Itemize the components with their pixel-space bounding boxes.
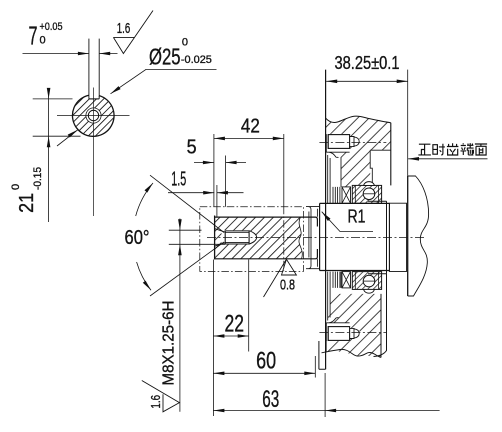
- lower bearing race shoulder: [364, 289, 375, 293]
- arrow dia25 leader: [111, 86, 121, 94]
- shaft face extension lower: [212, 260, 214, 417]
- dim 1.5 extension: [216, 185, 218, 217]
- lower housing right edge: [380, 294, 382, 358]
- M8 thread extension lines: [169, 229, 202, 231]
- arrow 60deg arc bottom: [143, 281, 151, 291]
- upper bolt shank tip: [350, 137, 360, 147]
- 60 deg lower leg / M8 leader: [150, 242, 224, 296]
- journal right flange: [368, 201, 389, 274]
- tapped hole thread circle: [86, 108, 101, 123]
- lower bolt shank tip: [350, 328, 360, 338]
- svg-text:42: 42: [241, 116, 260, 138]
- timing gear hub: [389, 203, 406, 271]
- hatch: upper crankcase housing: [326, 116, 391, 187]
- crankcase cover wall upper: [328, 155, 341, 203]
- arrow dim 42 right: [273, 137, 284, 141]
- arrow dim 38.25 left: [326, 80, 337, 84]
- dim 63 extension: [324, 373, 326, 417]
- erase: lower bolt pocket: [326, 323, 350, 342]
- oil seal box upper: [342, 187, 351, 203]
- arrow dim 42 left: [214, 137, 225, 141]
- upper bolt centerline: [319, 142, 386, 144]
- char chi: [447, 143, 459, 155]
- hatch: upper bearing races: [352, 185, 381, 203]
- arrow dim 1.5 left: [203, 191, 214, 195]
- char duan: [461, 143, 474, 155]
- dim 22 line: [213, 335, 248, 337]
- arrow dim 60 left: [213, 372, 224, 376]
- hatch: shaft end-view circle: [73, 95, 115, 137]
- shaft face extension upper: [213, 134, 215, 207]
- crank journal: [320, 203, 390, 270]
- erase: upper bolt pocket: [326, 134, 350, 153]
- hatch: lower crankcase housing: [328, 294, 381, 358]
- timing gear face extension: [407, 70, 409, 176]
- surface finish 0.8 symbol: [264, 259, 297, 297]
- oil seal lip lines upper: [333, 187, 340, 203]
- lower bolt head: [328, 327, 349, 341]
- upper bearing outer race: [352, 185, 381, 203]
- timing gear face: [407, 176, 409, 296]
- svg-text:0: 0: [40, 35, 46, 47]
- svg-text:1.5: 1.5: [171, 169, 186, 191]
- arrow dim 38.25 right: [397, 80, 408, 84]
- svg-text:60: 60: [256, 348, 276, 375]
- shaft end-view outer circle: [72, 95, 114, 136]
- dia 25 leader: [111, 69, 217, 93]
- erase: tapped hole interior: [222, 230, 250, 244]
- svg-text:-0.15: -0.15: [32, 167, 44, 190]
- label timing gear end face (CJK strokes): [418, 143, 487, 155]
- main axis centerline: [207, 236, 425, 238]
- dim 38.25 line: [326, 80, 408, 82]
- dim 7 line: [23, 53, 89, 55]
- dim 5 extension: [225, 156, 227, 207]
- crankcase housing right edge: [390, 123, 392, 186]
- lower bolt centerline: [319, 332, 386, 334]
- arrow dim 1.5 right: [217, 191, 228, 195]
- arrow dim 7 right: [99, 52, 110, 56]
- shaft end face: [214, 216, 216, 260]
- shaft top edge: [215, 217, 318, 226]
- arrow dia25 opposite: [68, 130, 78, 138]
- svg-text:0: 0: [182, 37, 188, 49]
- arrow dim 63 left: [213, 409, 224, 413]
- hatch: lower bearing races: [352, 272, 381, 290]
- hole entry chamfer: [215, 229, 226, 247]
- 60 deg upper leg: [150, 175, 224, 232]
- arrow R1 leader: [322, 212, 331, 221]
- svg-text:+0.05: +0.05: [40, 21, 63, 33]
- svg-text:0.8: 0.8: [280, 277, 295, 294]
- svg-text:63: 63: [262, 386, 279, 413]
- svg-text:1.6: 1.6: [117, 20, 131, 37]
- oil seal box lower: [342, 272, 351, 288]
- M8 dimension line vertical: [179, 219, 181, 412]
- crankcase top break line: [326, 116, 391, 123]
- svg-text:38.25±0.1: 38.25±0.1: [335, 53, 400, 73]
- dim 60 line: [213, 372, 315, 374]
- timing gear break outline: [408, 176, 429, 296]
- tapped hole drill point: [249, 231, 257, 244]
- phantom pulley outline: [200, 207, 304, 272]
- dim 5 line: [194, 162, 246, 164]
- arrow dim 22 left: [213, 334, 224, 338]
- arrow M8 upper: [178, 219, 182, 230]
- arrow timing gear label: [408, 157, 419, 161]
- tapped hole minor circle: [88, 110, 98, 120]
- arrow dim 5 left: [203, 161, 214, 165]
- svg-text:5: 5: [187, 136, 197, 158]
- dim 60 extension: [314, 356, 316, 378]
- svg-text:60°: 60°: [125, 227, 150, 249]
- lower bolt pocket: [326, 318, 349, 327]
- shaft bottom edge: [215, 249, 318, 259]
- svg-text:0: 0: [10, 184, 22, 190]
- svg-text:Ø25: Ø25: [149, 43, 181, 69]
- shaft break wavy line: [299, 217, 302, 259]
- dim 22 extension: [248, 260, 250, 352]
- dim 21 extension lines: [33, 98, 73, 100]
- arrow dim 22 right: [238, 334, 249, 338]
- arrow dim 63 right: [325, 409, 336, 413]
- dim 63 line: [213, 410, 439, 412]
- dim 21 line: [48, 91, 50, 223]
- svg-text:1.6: 1.6: [148, 395, 163, 409]
- tapped hole thread crests: [225, 231, 249, 244]
- surface finish 1.6 bottom symbol: [142, 381, 180, 412]
- arrow dim 21 top: [47, 88, 51, 99]
- svg-text:22: 22: [225, 310, 245, 337]
- dim 42 line: [214, 137, 284, 139]
- housing bore step: [370, 150, 391, 185]
- tapped hole body: [225, 231, 249, 244]
- phantom pulley hub face: [283, 207, 285, 272]
- timing gear face label leader: [408, 158, 487, 160]
- svg-text:M8X1.25-6H: M8X1.25-6H: [161, 301, 178, 386]
- arrow M8 lower: [178, 244, 182, 255]
- upper bolt pocket: [326, 149, 349, 158]
- char mian: [475, 144, 487, 155]
- crankcase bottom break line: [322, 349, 382, 357]
- lower bearing outer race: [352, 272, 381, 290]
- keyway slot lines end view: [88, 39, 90, 99]
- hatch: shaft stub section: [215, 217, 303, 259]
- svg-text:-0.025: -0.025: [181, 54, 212, 66]
- svg-text:7: 7: [29, 21, 38, 51]
- erase: keyway slot in end view: [89, 93, 99, 99]
- arrow dim 21 bottom: [47, 136, 51, 147]
- lower bearing ball: [363, 275, 375, 287]
- arrow dim 60 right: [304, 372, 315, 376]
- oil seal lip lines lower: [333, 272, 340, 288]
- surface finish 1.6 top symbol: [113, 11, 153, 54]
- arrow 60deg arc top: [145, 183, 154, 193]
- svg-text:21: 21: [16, 193, 38, 213]
- upper bolt head: [328, 135, 349, 149]
- arrow dim 7 left: [78, 52, 89, 56]
- crank web edge: [374, 274, 387, 357]
- upper bearing race shoulder: [364, 182, 375, 186]
- end view centerline vertical: [92, 88, 94, 217]
- arrow dim 5 right: [226, 161, 237, 165]
- dim 1.5 line: [168, 192, 244, 194]
- 60 deg dimension arc: [136, 183, 153, 290]
- char shi: [433, 144, 445, 155]
- R1 leader: [322, 212, 373, 232]
- char zheng: [418, 144, 431, 155]
- end view centerline horizontal: [57, 115, 130, 117]
- upper bearing ball: [363, 188, 375, 200]
- dim 42 extension: [283, 134, 285, 207]
- crankcase bottom left corner: [319, 340, 326, 369]
- svg-text:R1: R1: [348, 207, 366, 227]
- crankcase cover wall lower: [328, 272, 341, 321]
- cover hub bore: [306, 207, 320, 269]
- crankcase mounting face: [325, 70, 327, 370]
